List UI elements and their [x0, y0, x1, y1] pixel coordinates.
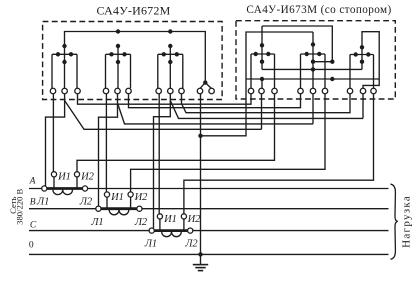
- wire: И673М lower cross link: [262, 68, 362, 70]
- svg-text:Л1: Л1: [36, 197, 49, 208]
- meter СА4У-И672М dashed enclosure: [43, 22, 223, 100]
- ground symbol: [193, 254, 208, 270]
- svg-text:А: А: [29, 177, 36, 187]
- wire: voltage bus of И672М: [65, 32, 206, 83]
- И672М element 1 link cluster: [52, 44, 77, 88]
- И672М terminals 7-9 (element 3): [156, 88, 162, 94]
- wire: И673М neutral rail: [246, 78, 379, 80]
- neutral line 0: [29, 253, 389, 255]
- svg-text:СА4У-И672М: СА4У-И672М: [97, 4, 171, 18]
- phase line A: [29, 188, 389, 190]
- wire: И672М neutral to ground and 0 line: [200, 94, 202, 255]
- current transformer CT3 phase C: [154, 219, 187, 237]
- junction 0-line with ground: [198, 252, 202, 256]
- wire: И672М t6 to И673М t4 current link: [129, 94, 301, 108]
- wire: И673М t3 return to CT1 И2: [77, 94, 275, 172]
- meter СА4У-И673М dashed enclosure: [236, 21, 395, 99]
- И672М terminals 4-6 (element 2): [103, 88, 109, 94]
- wire: И672М t4 to CT2 И1: [105, 94, 107, 194]
- wire: И672М t7 to CT3 И1: [158, 94, 160, 216]
- svg-text:И2: И2: [134, 192, 149, 203]
- phase line C: [29, 230, 389, 232]
- И673М terminals 4-6 (element 2): [298, 88, 304, 94]
- svg-text:И2: И2: [80, 171, 95, 182]
- svg-text:Л2: Л2: [79, 197, 93, 208]
- svg-text:И1: И1: [110, 192, 124, 203]
- И673М element 3 link cluster: [350, 45, 374, 88]
- wire: И673М t6 return to CT2 И2: [131, 94, 325, 194]
- И673М element 1 link cluster: [251, 26, 275, 88]
- wire: И672М t8 phase C tap: [154, 94, 171, 228]
- svg-text:Л1: Л1: [90, 217, 103, 228]
- svg-text:380/220 В: 380/220 В: [14, 189, 24, 225]
- И673М terminals 1-3 (element 1): [248, 88, 254, 94]
- wire: И672М t3 to И673М t1 current link: [78, 94, 252, 104]
- wire: neutral rail to terminal 2: [261, 79, 263, 88]
- wire: И673М neutral tie: [202, 79, 247, 136]
- svg-text:И1: И1: [57, 171, 71, 182]
- svg-text:С: С: [30, 220, 37, 230]
- И672М element 3 link cluster: [158, 29, 183, 88]
- wire: И673М element 3 top hook: [362, 32, 379, 89]
- svg-text:СА4У-И673М (со стопором): СА4У-И673М (со стопором): [246, 4, 391, 16]
- current transformer CT2 phase B: [101, 197, 137, 215]
- svg-text:И2: И2: [187, 214, 202, 225]
- wire: И672М t9 to И673М t7 current link: [182, 94, 351, 113]
- wire: И673М top bus B: [246, 32, 313, 79]
- svg-text:0: 0: [29, 241, 34, 251]
- wire: И672М t5 phase B tap: [99, 94, 118, 206]
- И672М terminals 1-3 (element 1): [50, 88, 56, 94]
- svg-text:В: В: [30, 198, 36, 208]
- И672М element 2 link cluster: [106, 29, 131, 88]
- wire: voltage A to И673М t2: [65, 101, 262, 130]
- svg-text:Нагрузка: Нагрузка: [401, 195, 413, 248]
- svg-text:И1: И1: [163, 214, 177, 225]
- svg-text:Л2: Л2: [134, 217, 148, 228]
- wire: link И673М element2 to bus A drop: [313, 61, 332, 63]
- И673М element 2 link cluster: [301, 32, 326, 88]
- wire: И672М t2 phase A tap: [46, 94, 65, 186]
- wire: voltage B to И673М t5: [118, 103, 314, 124]
- load brace: [391, 184, 398, 259]
- И673М terminals 7-9 (element 3): [347, 88, 353, 94]
- wire: И672М t1 to CT1 И1: [52, 94, 54, 172]
- И672М neutral terminals 10-11 with jumper: [200, 80, 211, 88]
- svg-text:Л1: Л1: [144, 239, 157, 250]
- wire: И673М t9 return to CT3 И2: [184, 94, 374, 216]
- svg-text:Л2: Л2: [184, 239, 198, 250]
- current transformer CT1 phase A: [47, 177, 83, 195]
- wire: И673М top bus A: [262, 26, 332, 62]
- wire: voltage C to И673М t8: [170, 101, 363, 119]
- phase line B: [29, 208, 389, 210]
